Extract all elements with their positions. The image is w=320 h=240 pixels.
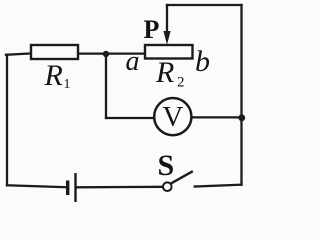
svg-text:R: R xyxy=(44,59,63,92)
svg-text:R: R xyxy=(155,56,174,89)
wire R1 to R2 xyxy=(78,52,145,54)
wiper arrowhead P xyxy=(163,31,170,45)
svg-text:S: S xyxy=(158,149,175,182)
wire voltmeter to right node xyxy=(193,116,242,118)
wire switch to right corner xyxy=(195,185,242,187)
battery negative plate short xyxy=(66,181,69,196)
wire right vertical xyxy=(240,5,242,185)
battery positive plate long xyxy=(74,173,76,202)
node junction dot left xyxy=(103,51,109,57)
svg-text:P: P xyxy=(144,15,160,44)
rheostat R2 xyxy=(145,45,193,59)
switch blade xyxy=(171,171,193,183)
svg-text:2: 2 xyxy=(177,75,185,91)
wire top-left segment xyxy=(6,53,31,54)
wire bottom battery left xyxy=(7,185,66,187)
svg-text:V: V xyxy=(162,101,183,133)
node junction dot right xyxy=(238,114,245,121)
wire junction to voltmeter vertical xyxy=(105,54,107,118)
svg-text:1: 1 xyxy=(64,77,71,92)
wire voltmeter horizontal xyxy=(106,117,153,119)
resistor R1 xyxy=(31,45,78,59)
wire wiper feed top xyxy=(167,4,242,6)
svg-text:b: b xyxy=(195,45,210,78)
wire wiper vertical xyxy=(166,5,168,34)
wire left vertical xyxy=(6,55,8,186)
wire battery to switch xyxy=(78,186,164,189)
switch pivot circle xyxy=(163,182,172,191)
voltmeter V xyxy=(154,98,191,135)
svg-text:a: a xyxy=(126,46,140,77)
